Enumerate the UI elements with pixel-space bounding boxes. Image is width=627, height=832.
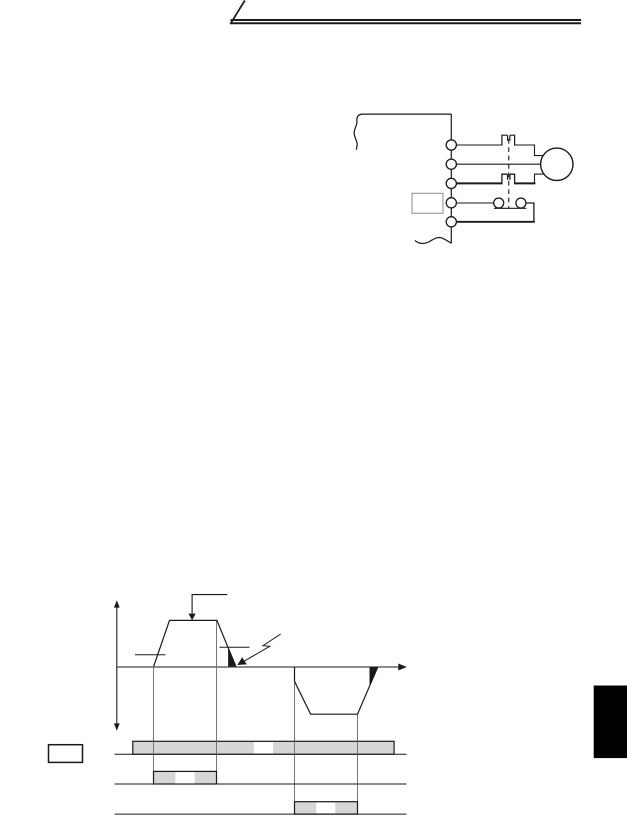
mechanical linkage (dashed) [508, 139, 510, 208]
gap in signal bar 3 [316, 803, 335, 814]
wire: phase 2 terminal to motor [456, 163, 541, 165]
wire: phase 3 contact to motor (bold then step up) [514, 182, 535, 184]
page tab (black) [594, 686, 627, 759]
terminal 5 [446, 217, 456, 227]
signal row 2 baseline [115, 783, 407, 785]
guide line t2 over bar1 [216, 741, 218, 754]
terminal 2 [446, 159, 456, 169]
legend label box [49, 745, 83, 763]
signal bar 1 (gray) [133, 741, 394, 754]
wire: contact to loop corner [526, 203, 534, 221]
wire: phase 1 contact to motor [515, 145, 544, 156]
guide line t4 over bar1 [357, 741, 359, 754]
guide line t4 [357, 714, 359, 802]
header rule bottom line [231, 22, 582, 24]
start frequency tick [135, 654, 166, 656]
contactor main contact 2 [502, 174, 515, 184]
output frequency trapezoid (reverse) [295, 667, 378, 714]
wire: terminal 4 to interlock contact [456, 202, 493, 204]
interlock contact bar [494, 207, 526, 209]
wire: vertical terminal bus [450, 114, 452, 243]
interlock contact circle left [494, 198, 504, 208]
interlock contact circle right [516, 198, 526, 208]
terminal 1 [446, 140, 456, 150]
signal bar 2 (gray) [154, 771, 217, 784]
guide line t3 [294, 667, 296, 802]
stop frequency tick [220, 646, 250, 648]
gap in signal bar 1 [254, 742, 273, 753]
signal bar 3 (gray) [295, 802, 358, 814]
signal row 3 baseline [115, 813, 407, 815]
terminal 4 [446, 198, 456, 208]
vertical axis double arrow [114, 600, 120, 730]
callout arrow (set frequency) [192, 595, 227, 614]
function label box (gray outline) [412, 193, 443, 213]
DC braking wedge 1 [228, 648, 236, 667]
break mark squiggle (bottom) [415, 237, 451, 243]
guide line t1 over bar1 [153, 741, 155, 754]
terminal 3 [446, 178, 456, 188]
guide line t2 [216, 620, 218, 771]
guide line t1 [153, 667, 155, 772]
gap in signal bar 2 [175, 772, 194, 783]
guide line t3 over bar1 [294, 741, 296, 754]
output frequency trapezoid (forward) [154, 620, 236, 666]
break mark squiggle (top left) [354, 114, 362, 150]
motor M [541, 148, 573, 180]
contactor main contact 1 [502, 135, 515, 145]
wire: phase 3 terminal to contact (bold) [456, 182, 502, 184]
lightning arrow (free run) [244, 634, 281, 661]
header rule top line [231, 19, 582, 21]
time axis with right arrowhead [117, 664, 407, 671]
wire: return loop to terminal 5 (bold) [456, 221, 534, 223]
wire: incoming supply line (top) [362, 113, 451, 115]
header diagonal stroke [230, 1, 245, 25]
DC braking wedge 2 [370, 667, 378, 686]
signal row 1 baseline [115, 753, 407, 755]
wire: phase 1 terminal to contact [456, 144, 502, 146]
